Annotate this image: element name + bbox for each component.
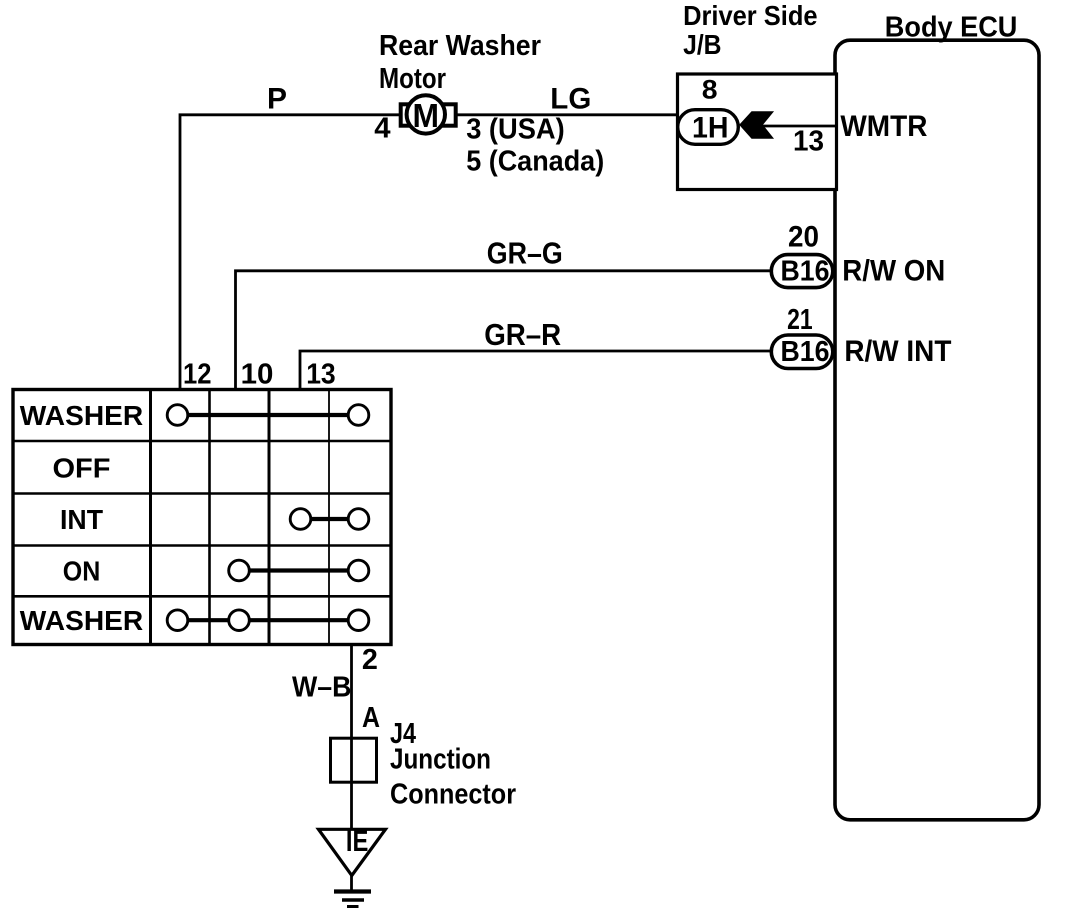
svg-text:GR–R: GR–R	[484, 317, 561, 352]
svg-text:8: 8	[702, 75, 718, 105]
svg-text:20: 20	[788, 221, 819, 254]
svg-text:Motor: Motor	[379, 63, 446, 95]
svg-text:GR–G: GR–G	[487, 236, 563, 271]
svg-text:21: 21	[787, 304, 813, 336]
svg-text:IE: IE	[346, 825, 369, 858]
svg-text:Connector: Connector	[390, 779, 516, 811]
svg-text:A: A	[362, 702, 380, 734]
svg-text:5 (Canada): 5 (Canada)	[466, 145, 604, 177]
svg-text:B16: B16	[781, 256, 830, 288]
svg-text:3 (USA): 3 (USA)	[466, 114, 565, 146]
svg-text:Driver Side: Driver Side	[683, 0, 818, 31]
svg-text:Rear Washer: Rear Washer	[379, 30, 541, 62]
svg-text:10: 10	[241, 358, 274, 390]
svg-text:WMTR: WMTR	[840, 110, 927, 143]
svg-text:13: 13	[793, 126, 824, 158]
svg-text:Body ECU: Body ECU	[885, 11, 1018, 43]
svg-text:Junction: Junction	[390, 744, 491, 776]
svg-text:OFF: OFF	[53, 453, 111, 484]
svg-text:12: 12	[183, 358, 212, 390]
svg-text:R/W ON: R/W ON	[842, 255, 945, 288]
svg-text:2: 2	[362, 644, 378, 676]
svg-text:1H: 1H	[692, 111, 729, 144]
svg-text:ON: ON	[63, 556, 101, 587]
svg-text:R/W INT: R/W INT	[844, 335, 951, 368]
svg-text:4: 4	[374, 113, 390, 145]
svg-text:13: 13	[306, 358, 336, 390]
svg-text:WASHER: WASHER	[20, 605, 143, 636]
svg-text:P: P	[267, 83, 287, 116]
svg-text:M: M	[413, 97, 440, 134]
svg-text:J/B: J/B	[683, 29, 721, 60]
svg-text:W–B: W–B	[292, 672, 352, 704]
svg-text:INT: INT	[60, 504, 103, 535]
svg-text:B16: B16	[781, 336, 830, 368]
svg-text:LG: LG	[550, 83, 591, 116]
svg-text:WASHER: WASHER	[20, 400, 143, 431]
